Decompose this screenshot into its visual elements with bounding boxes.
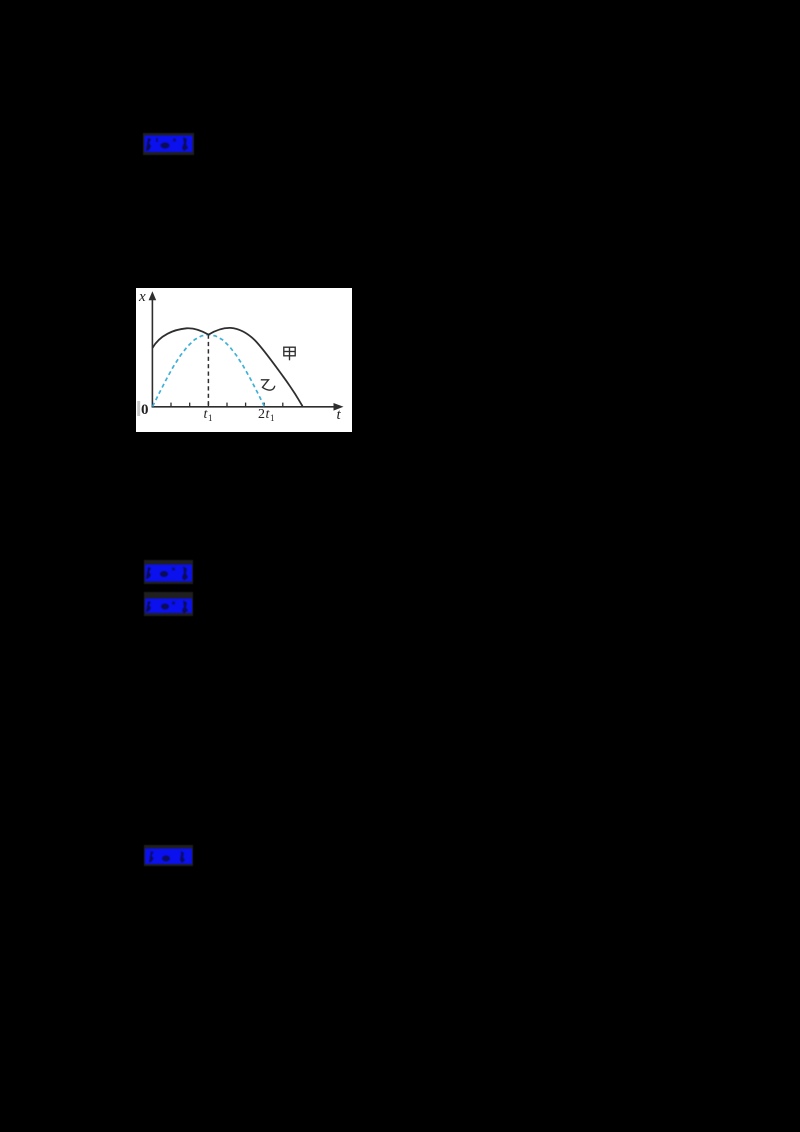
x-axis	[152, 406, 335, 408]
glyph jia	[284, 347, 295, 360]
faint mark left of origin	[137, 401, 140, 416]
answer label L3	[144, 592, 193, 616]
y-axis	[151, 296, 153, 407]
ticks	[171, 403, 283, 407]
dashed vertical at t1	[207, 335, 209, 407]
answer label L2	[144, 560, 193, 584]
curve yi (cyan dashed)	[153, 335, 265, 407]
graph figure	[136, 288, 352, 432]
answer label L4	[144, 845, 193, 866]
svg-text:2: 2	[258, 407, 265, 422]
glyph yi	[261, 380, 275, 390]
svg-text:0: 0	[141, 402, 149, 418]
svg-text:1: 1	[208, 413, 213, 423]
white panel	[136, 288, 352, 432]
curve jia (black solid)	[152, 328, 302, 406]
svg-text:1: 1	[270, 413, 275, 423]
answer label L1	[143, 133, 194, 155]
svg-text:x: x	[138, 289, 146, 305]
